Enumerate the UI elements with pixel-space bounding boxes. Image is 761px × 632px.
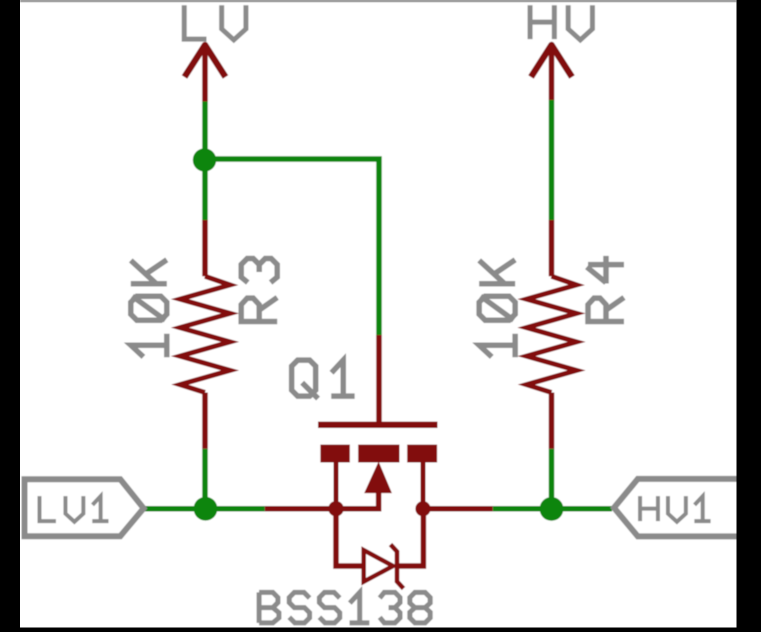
resistor R4 zigzag <box>527 276 577 392</box>
body-diode loop left <box>336 509 362 566</box>
label HV (top power) <box>530 5 592 40</box>
power arrow LV stem <box>202 46 208 102</box>
wire R3 bottom to bottom-left junction <box>202 449 208 509</box>
body diode zener bar <box>391 545 404 589</box>
power arrow HV stem <box>549 46 555 100</box>
body-diode loop right <box>399 509 424 566</box>
flag LV1 outline <box>25 479 144 536</box>
wire gate net horizontal from top junction <box>205 159 379 335</box>
wire right junction to HV1 flag <box>493 506 612 512</box>
MOSFET Q1 channel rect source <box>320 445 349 463</box>
resistor R3 leads <box>202 220 208 276</box>
resistor R3 zigzag <box>180 276 230 392</box>
MOSFET Q1 channel rect body <box>358 445 399 463</box>
label HV1 (flag text) <box>640 496 711 522</box>
label BSS138 <box>259 592 430 622</box>
wire R4 bottom to right junction <box>549 449 555 509</box>
MOSFET Q1 gate bar <box>318 422 438 428</box>
junction dot drain <box>415 501 430 516</box>
junction dot top-left (LV net) <box>193 148 216 171</box>
label R4 (name) rotated <box>587 256 624 322</box>
wire HV net vertical (arrow to R4) <box>549 100 555 220</box>
junction dot right (HV1 net) <box>540 497 564 521</box>
top edge line <box>20 0 737 2</box>
power arrow HV head <box>531 45 572 77</box>
border bar left <box>0 0 20 632</box>
label Q1 <box>292 360 355 398</box>
label LV1 (flag text) <box>40 496 109 522</box>
wire LV1 flag to bottom-left junction <box>145 506 265 512</box>
junction dot bottom-left (LV1 net) <box>194 497 218 521</box>
MOSFET channel stub right <box>421 461 426 509</box>
MOSFET source lead + body stem (left) <box>265 491 379 509</box>
MOSFET Q1 body arrow <box>364 462 392 494</box>
body diode triangle <box>364 550 393 582</box>
power arrow LV head <box>185 45 226 77</box>
resistor R4 leads <box>549 220 555 276</box>
MOSFET channel stub left <box>334 461 339 509</box>
label 10K (R3 value) rotated <box>131 260 167 357</box>
gate lead Q1 <box>376 335 382 425</box>
border bar right <box>737 0 761 632</box>
flag HV1 outline <box>614 479 745 537</box>
label LV (top power) <box>184 5 246 40</box>
MOSFET drain lead (right) <box>423 506 493 512</box>
junction dot source <box>328 501 343 516</box>
label 10K (R4 value) rotated <box>479 260 515 357</box>
label R3 (name) rotated <box>241 259 277 322</box>
MOSFET Q1 channel rect drain <box>407 445 437 463</box>
border bar bottom <box>20 628 737 632</box>
wire LV net vertical (arrow to top junction to R3) <box>202 102 208 221</box>
